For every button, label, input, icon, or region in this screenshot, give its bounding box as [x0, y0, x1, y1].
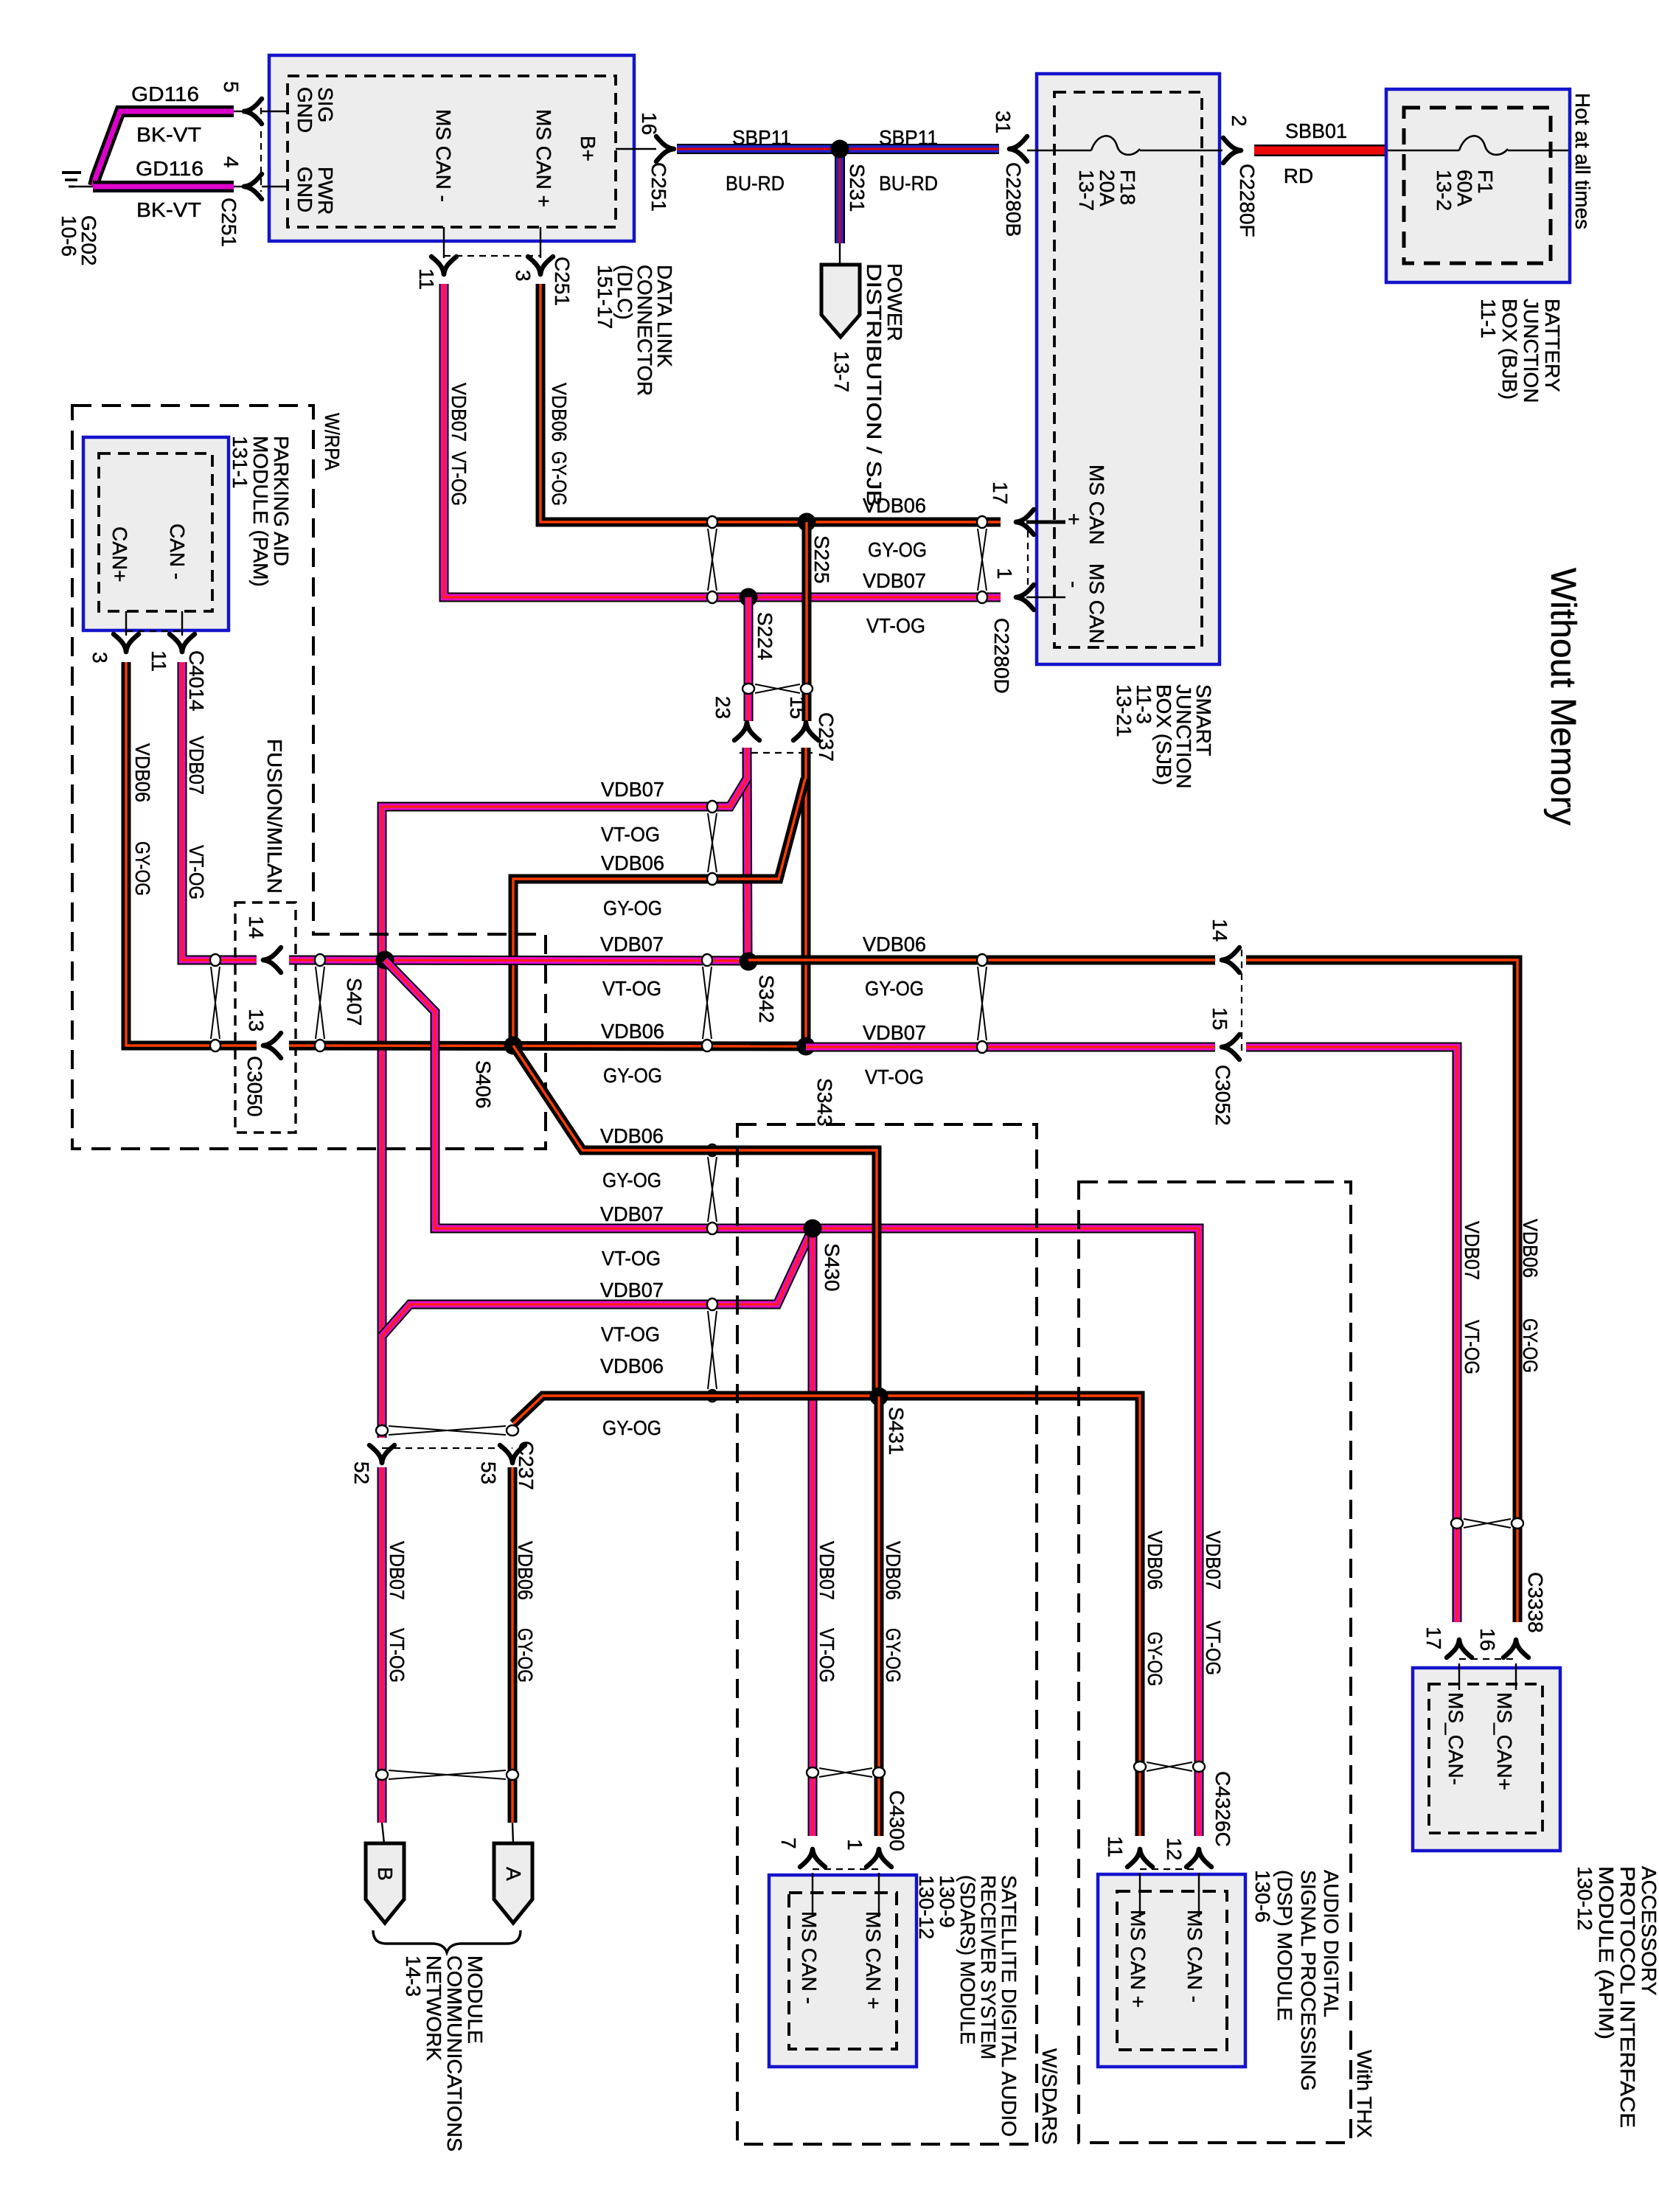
svg-text:31: 31: [992, 111, 1015, 133]
svg-text:PWR: PWR: [314, 167, 337, 215]
svg-text:W/RPA: W/RPA: [321, 413, 344, 470]
power distribution symbol: [821, 243, 906, 507]
svg-text:(SDARS) MODULE: (SDARS) MODULE: [956, 1875, 979, 2045]
connector A: [494, 1823, 532, 1923]
svg-text:11: 11: [415, 268, 438, 290]
wire VDB06 pin53 to connector A: [508, 1467, 518, 1823]
svg-text:MS CAN: MS CAN: [1085, 563, 1108, 644]
splice S430: [804, 1220, 844, 1292]
twisted pair symbol (y1769/y1893): [708, 1311, 717, 1389]
DLC label block: [594, 265, 676, 396]
svg-text:CAN+: CAN+: [108, 526, 131, 582]
svg-text:BU-RD: BU-RD: [726, 172, 785, 195]
svg-text:5: 5: [220, 81, 243, 93]
twisted pair symbol (above C237): [755, 684, 800, 693]
svg-text:BK-VT: BK-VT: [136, 123, 201, 146]
labels VDB06 GY-OG (S342 right): [863, 933, 926, 1000]
svg-text:BU-RD: BU-RD: [879, 172, 938, 195]
svg-text:GND: GND: [293, 87, 316, 133]
labels VDB06 GY-OG (S406-S343 run): [601, 1020, 664, 1087]
svg-text:GY-OG: GY-OG: [865, 977, 924, 1000]
APIM pin 16: [1476, 1628, 1528, 1658]
svg-text:VDB07: VDB07: [600, 933, 664, 956]
svg-text:VDB07: VDB07: [386, 1541, 408, 1600]
wire VDB06 S431 right to DSP pin11: [877, 1396, 1140, 1836]
svg-text:AUDIO DIGITAL: AUDIO DIGITAL: [1320, 1870, 1343, 2017]
svg-text:14: 14: [245, 916, 268, 939]
svg-text:W/SDARS: W/SDARS: [1038, 2048, 1061, 2145]
svg-text:GND: GND: [293, 167, 316, 212]
svg-text:GY-OG: GY-OG: [603, 1064, 662, 1087]
wire VDB07 VT-OG PAM pin11 to C3050 pin14: [182, 662, 257, 960]
svg-text:CAN -: CAN -: [166, 524, 189, 580]
svg-text:S231: S231: [846, 164, 869, 212]
svg-text:S343: S343: [813, 1078, 836, 1126]
DSP pin 11: [1104, 1836, 1152, 1867]
DLC pin 5 SIG GND: [220, 81, 337, 133]
svg-text:VDB07: VDB07: [863, 1021, 926, 1044]
SDARS label block: [915, 1875, 1020, 2137]
svg-text:VDB06: VDB06: [600, 1354, 664, 1377]
svg-text:MS CAN -: MS CAN -: [432, 109, 455, 202]
twisted pair symbol (above DSP): [1147, 1762, 1192, 1771]
twisted pair symbol (y1560/y1666): [708, 1157, 717, 1222]
svg-text:C237: C237: [515, 1441, 538, 1490]
twisted pair symbol (SJB pair): [978, 529, 987, 591]
wire VDB07 S343 to C3052 pin15: [806, 1043, 1215, 1052]
svg-text:23: 23: [712, 696, 734, 719]
svg-text:VDB07: VDB07: [600, 1203, 664, 1225]
svg-text:SBP11: SBP11: [732, 126, 791, 149]
svg-text:RECEIVER SYSTEM: RECEIVER SYSTEM: [977, 1875, 1000, 2059]
twisted pair symbol (y1094/y1192): [708, 813, 717, 872]
svg-text:12: 12: [1163, 1837, 1186, 1860]
svg-text:VT-OG: VT-OG: [602, 977, 661, 1000]
svg-text:VDB07: VDB07: [600, 1279, 664, 1301]
svg-text:C2280D: C2280D: [990, 618, 1013, 694]
C237 pin 52: [350, 1445, 394, 1484]
svg-text:MS_CAN+: MS_CAN+: [1493, 1692, 1516, 1790]
C237 pin 15: [786, 696, 818, 740]
svg-text:1: 1: [993, 568, 1016, 580]
svg-text:BK-VT: BK-VT: [136, 198, 201, 221]
svg-text:2: 2: [1228, 115, 1251, 127]
svg-text:SATELLITE DIGITAL AUDIO: SATELLITE DIGITAL AUDIO: [998, 1875, 1020, 2137]
svg-text:13-21: 13-21: [1113, 684, 1135, 737]
svg-text:VDB07: VDB07: [1461, 1221, 1484, 1280]
svg-text:14-3: 14-3: [402, 1955, 425, 1997]
wire VDB07 S224 to C237 pin23: [744, 597, 754, 721]
svg-text:VDB06: VDB06: [600, 1124, 664, 1147]
labels VDB07 VT-OG (y1094 run): [601, 778, 664, 846]
labels VDB06 GY-OG (right vertical): [1519, 1219, 1542, 1373]
DLC module box: [269, 55, 634, 241]
twisted pair symbol (above C237 52/53): [389, 1426, 506, 1435]
W/SDARS dashed region: [737, 1124, 1037, 2144]
ground G202: [58, 173, 100, 266]
svg-text:GY-OG: GY-OG: [1144, 1632, 1166, 1686]
connector C4300 dashed: [813, 1868, 879, 1870]
splice S407: [343, 951, 394, 1026]
C237 pin 23: [712, 696, 759, 740]
svg-text:MODULE: MODULE: [464, 1955, 487, 2044]
connector C237 dashed (top): [740, 752, 813, 754]
SDARS pin 1: [844, 1839, 891, 1867]
labels VDB06 GY-OG (DSP pin11): [1144, 1531, 1166, 1686]
svg-text:1: 1: [844, 1839, 866, 1851]
SJB pin 2: [1223, 115, 1259, 237]
svg-text:VT-OG: VT-OG: [601, 823, 660, 846]
connector C251 dashed (bottom): [444, 255, 540, 257]
svg-text:VT-OG: VT-OG: [815, 1628, 838, 1683]
svg-text:S406: S406: [472, 1060, 495, 1108]
svg-text:130-12: 130-12: [1573, 1866, 1596, 1930]
labels VDB07 VT-OG (y1666 run): [600, 1203, 664, 1270]
svg-text:SIG: SIG: [314, 87, 337, 122]
svg-text:14: 14: [1208, 919, 1231, 942]
svg-text:FUSION/MILAN: FUSION/MILAN: [263, 739, 286, 894]
BJB label block: [1477, 299, 1564, 403]
SJB pin 17 MS CAN +: [989, 481, 1065, 535]
BJB module box: [1386, 89, 1570, 282]
svg-text:MODULE (PAM): MODULE (PAM): [249, 436, 272, 587]
svg-text:131-1: 131-1: [229, 436, 251, 489]
svg-text:11: 11: [147, 650, 170, 672]
svg-text:+: +: [1062, 513, 1085, 525]
twisted pair symbol (DLC pair): [708, 529, 717, 591]
label MODULE COMMUNICATIONS NETWORK: [402, 1955, 487, 2152]
twisted pair symbol (before C3052): [978, 967, 987, 1040]
splice S431: [870, 1388, 908, 1455]
labels VDB06 GY-OG (SDARS pin1): [882, 1541, 905, 1683]
svg-text:MS CAN -: MS CAN -: [798, 1911, 821, 2004]
SJB label MS CAN +: [1062, 465, 1108, 545]
svg-text:130-9: 130-9: [936, 1875, 959, 1928]
svg-text:C3050: C3050: [243, 1056, 266, 1117]
labels VDB07 VT-OG (DSP pin12): [1202, 1531, 1225, 1675]
labels VDB06 GY-OG (y1893 run): [600, 1354, 664, 1439]
svg-text:VDB06: VDB06: [514, 1541, 537, 1600]
svg-text:S225: S225: [810, 535, 833, 583]
wire VDB07 pin52 to connector B: [378, 1467, 387, 1823]
labels VDB07 VT-OG (S407-S342 run): [600, 933, 664, 1000]
svg-text:3: 3: [512, 270, 535, 282]
connector C4326C dashed: [1140, 1868, 1199, 1870]
svg-text:60A: 60A: [1453, 170, 1476, 206]
C3050 pin 14: [245, 916, 281, 973]
C237 pin 53: [477, 1445, 525, 1484]
svg-text:F1: F1: [1474, 170, 1497, 194]
wire VDB07 S430 to SDARS pin7: [808, 1228, 818, 1836]
svg-text:MS CAN +: MS CAN +: [862, 1911, 885, 2009]
PAM label block: [229, 436, 293, 587]
svg-text:GY-OG: GY-OG: [1519, 1318, 1542, 1373]
wire VDB06 S342 to C3052 pin14: [748, 956, 1215, 965]
svg-text:C4326C: C4326C: [1211, 1771, 1234, 1847]
connector B: [366, 1823, 404, 1923]
svg-text:7: 7: [777, 1837, 800, 1849]
BJB internal circuit with fuse F1: [1388, 136, 1568, 155]
svg-text:17: 17: [989, 481, 1012, 504]
SJB internal circuit with fuse F18: [1027, 136, 1222, 155]
svg-text:16: 16: [638, 112, 661, 135]
svg-text:10-6: 10-6: [58, 215, 80, 257]
svg-text:GD116: GD116: [136, 157, 204, 180]
SJB module box: [1037, 74, 1220, 664]
svg-text:16: 16: [1476, 1628, 1499, 1651]
svg-text:13-7: 13-7: [1075, 170, 1098, 211]
svg-text:C237: C237: [815, 712, 838, 762]
svg-text:DISTRIBUTION / SJB: DISTRIBUTION / SJB: [863, 263, 886, 507]
svg-text:VDB07: VDB07: [448, 383, 470, 442]
svg-text:C2280B: C2280B: [1002, 162, 1025, 237]
svg-text:GY-OG: GY-OG: [603, 897, 662, 919]
brace module communications network: [373, 1930, 521, 1952]
svg-text:MS CAN +: MS CAN +: [532, 109, 555, 207]
svg-text:C251: C251: [551, 257, 574, 306]
svg-text:F18: F18: [1116, 170, 1139, 205]
labels VDB06 GY-OG (pin53): [514, 1541, 537, 1683]
svg-text:POWER: POWER: [883, 263, 906, 341]
svg-text:15: 15: [1208, 1007, 1231, 1030]
svg-text:-: -: [1062, 581, 1085, 588]
wire GD116 BK-VT to DLC pin 4: [93, 181, 244, 192]
svg-text:VT-OG: VT-OG: [386, 1628, 408, 1683]
svg-text:VDB07: VDB07: [601, 778, 664, 801]
APIM label block: [1573, 1866, 1659, 2128]
wire VDB07 C3050 pin14 to S342: [289, 960, 748, 961]
labels VDB07 VT-OG (S343 right): [863, 1021, 926, 1088]
DLC pin 16 B+: [616, 112, 674, 212]
twisted pair symbol (above B/A): [389, 1770, 506, 1779]
DSP pin 12: [1163, 1837, 1211, 1867]
labels VDB06 GY-OG (y1192 run): [601, 852, 664, 919]
splice S225: [798, 513, 834, 584]
APIM module box: [1413, 1663, 1560, 1851]
svg-text:VDB06: VDB06: [863, 933, 926, 956]
svg-text:PARKING AID: PARKING AID: [270, 436, 293, 566]
svg-text:C251: C251: [647, 162, 670, 212]
C3052 pin 15: [1208, 1007, 1239, 1060]
svg-text:MS CAN +: MS CAN +: [1127, 1910, 1150, 2008]
twisted pair symbol (above SDARS): [819, 1768, 872, 1777]
svg-text:C3052: C3052: [1211, 1065, 1234, 1126]
svg-text:3: 3: [88, 652, 111, 664]
svg-text:130-6: 130-6: [1251, 1870, 1274, 1923]
labels VDB06 GY-OG (PAM): [131, 743, 154, 896]
wire VDB07 C3052 to APIM pin17: [1246, 1047, 1457, 1622]
connector C3338 dashed: [1459, 1658, 1516, 1660]
svg-text:S407: S407: [343, 978, 366, 1026]
splice S342: [740, 953, 779, 1023]
With THX dashed region: [1079, 1182, 1351, 2143]
labels VDB07 VT-OG (right vertical): [1461, 1221, 1484, 1374]
svg-text:C251: C251: [218, 198, 240, 247]
svg-text:GY-OG: GY-OG: [882, 1628, 905, 1683]
svg-text:20A: 20A: [1096, 170, 1119, 206]
twisted pair symbol (PAM pair): [211, 967, 220, 1039]
splice S231: [831, 140, 869, 244]
labels VDB06 GY-OG (DLC vertical): [548, 383, 571, 506]
labels VDB07 VT-OG (DLC vertical): [448, 383, 470, 506]
svg-text:52: 52: [350, 1461, 373, 1484]
svg-text:BATTERY: BATTERY: [1541, 299, 1564, 392]
svg-text:151-17: 151-17: [594, 265, 616, 329]
svg-text:VT-OG: VT-OG: [601, 1323, 660, 1346]
svg-text:GY-OG: GY-OG: [514, 1628, 537, 1683]
svg-text:SBB01: SBB01: [1285, 119, 1347, 142]
wire VDB06 branch to S406 riser: [513, 779, 805, 1046]
svg-text:11: 11: [1104, 1836, 1127, 1857]
svg-text:130-12: 130-12: [915, 1875, 938, 1939]
svg-text:B: B: [374, 1867, 397, 1881]
svg-text:C2280F: C2280F: [1236, 164, 1259, 237]
svg-text:MODULE (APIM): MODULE (APIM): [1595, 1866, 1618, 2039]
svg-text:With THX: With THX: [1353, 2050, 1376, 2138]
DSP label block: [1251, 1870, 1343, 2091]
svg-text:A: A: [502, 1867, 525, 1881]
svg-text:53: 53: [477, 1461, 500, 1484]
svg-text:15: 15: [786, 696, 809, 719]
svg-text:VT-OG: VT-OG: [448, 451, 470, 506]
wire VDB07 S430 diagonal to pin52 wire: [382, 1228, 813, 1336]
wire VDB06 GY-OG PAM pin3 to C3050 pin13: [126, 662, 257, 1046]
svg-text:17: 17: [1422, 1627, 1445, 1649]
svg-text:GY-OG: GY-OG: [868, 538, 927, 561]
svg-text:C4014: C4014: [185, 650, 208, 712]
SJB pin 31: [992, 111, 1027, 237]
PAM pin 11 stub: [147, 611, 195, 672]
DSP module box: [1098, 1873, 1245, 2067]
svg-text:13-7: 13-7: [830, 351, 853, 392]
svg-text:VT-OG: VT-OG: [866, 614, 925, 637]
connector C237 dashed (bottom): [382, 1447, 512, 1449]
svg-text:NETWORK: NETWORK: [422, 1955, 445, 2061]
DLC pin 11 stub: [415, 227, 456, 290]
svg-text:VDB07: VDB07: [1202, 1531, 1225, 1590]
svg-text:C4300: C4300: [886, 1790, 908, 1851]
svg-text:S431: S431: [885, 1407, 908, 1455]
DLC pin 4 PWR GND: [220, 156, 337, 215]
labels VDB07 VT-OG (SDARS pin7): [815, 1541, 838, 1683]
svg-text:ACCESSORY: ACCESSORY: [1638, 1866, 1659, 1996]
wire VDB06 C237 pin15 to S343: [801, 748, 811, 1046]
svg-text:JUNCTION: JUNCTION: [1520, 299, 1543, 403]
SJB label block: [1113, 684, 1215, 789]
svg-text:13-2: 13-2: [1433, 170, 1455, 211]
wire VDB07 branch to pin 52 wire: [382, 779, 747, 1438]
svg-text:VDB06: VDB06: [548, 383, 571, 442]
svg-text:BOX (BJB): BOX (BJB): [1498, 299, 1521, 400]
svg-text:VDB06: VDB06: [601, 1020, 664, 1043]
svg-text:VT-OG: VT-OG: [602, 1247, 661, 1270]
svg-text:13: 13: [245, 1009, 268, 1032]
fuse F1 labels: [1433, 170, 1497, 211]
splice S406: [472, 1037, 523, 1109]
svg-text:VT-OG: VT-OG: [1461, 1320, 1484, 1374]
svg-text:(DSP) MODULE: (DSP) MODULE: [1273, 1870, 1296, 2021]
wire VDB07 S407 to S430 to DSP pin12: [385, 960, 1199, 1836]
svg-text:B+: B+: [577, 136, 599, 161]
svg-text:VDB06: VDB06: [601, 852, 664, 874]
svg-text:S430: S430: [821, 1243, 844, 1291]
svg-text:SBP11: SBP11: [879, 126, 938, 149]
wire VDB07 VT-OG DLC pin11 to SJB pin1 via S224: [444, 284, 1001, 597]
wire SBB01 RD: [1254, 145, 1388, 156]
svg-text:GY-OG: GY-OG: [602, 1416, 661, 1439]
wire VDB06 S431 to SDARS pin1: [874, 1397, 884, 1836]
svg-text:4: 4: [220, 156, 243, 168]
PAM module box: [83, 437, 229, 630]
svg-text:PROTOCOL INTERFACE: PROTOCOL INTERFACE: [1616, 1866, 1639, 2128]
svg-text:S224: S224: [754, 612, 776, 660]
svg-text:VDB06: VDB06: [131, 743, 154, 802]
wire VDB06 S225 to C237 pin15: [802, 522, 812, 721]
wire VDB06 S406 to S431 riser: [513, 1046, 877, 1397]
APIM pin 17: [1422, 1627, 1472, 1658]
svg-text:VT-OG: VT-OG: [185, 845, 208, 900]
labels VDB06 GY-OG (to SJB pin17): [863, 494, 927, 561]
W/RPA dashed region: [72, 406, 546, 1149]
fuse F18 labels: [1075, 170, 1139, 211]
svg-text:VDB07: VDB07: [185, 736, 208, 795]
DLC pin 3 stub: [512, 227, 574, 306]
twisted pair symbol (above APIM): [1464, 1519, 1511, 1528]
wire VDB06 C3052 to APIM pin16: [1246, 960, 1517, 1622]
wire GD116 BK-VT to DLC pin 5: [94, 111, 244, 186]
svg-text:VDB06: VDB06: [882, 1541, 905, 1600]
svg-text:VT-OG: VT-OG: [1202, 1621, 1225, 1675]
svg-text:MS CAN: MS CAN: [1085, 465, 1108, 545]
labels VDB07 VT-OG (PAM): [185, 736, 208, 900]
labels VDB07 VT-OG (to SJB pin1): [863, 569, 926, 637]
svg-text:VDB06: VDB06: [1519, 1219, 1542, 1278]
svg-text:11-1: 11-1: [1477, 299, 1500, 338]
C3050 pin 13: [245, 1009, 281, 1058]
wire SBP11 BU-RD: [677, 144, 999, 154]
PAM pin 3 stub: [88, 611, 139, 664]
wire VDB07 C237 pin23 to S342: [747, 748, 748, 961]
splice S343: [797, 1037, 837, 1127]
SDARS pin 7: [777, 1837, 825, 1867]
svg-text:GY-OG: GY-OG: [131, 841, 154, 896]
svg-text:C3338: C3338: [1524, 1572, 1547, 1633]
svg-text:Hot at all times: Hot at all times: [1571, 93, 1594, 229]
twisted pair symbol (after C3050): [316, 967, 324, 1039]
twisted pair symbol (before S342/S343): [703, 967, 712, 1039]
svg-text:SIGNAL PROCESSING: SIGNAL PROCESSING: [1297, 1870, 1320, 2091]
connector C3050 dashed box: [235, 902, 296, 1133]
svg-text:MS CAN -: MS CAN -: [1183, 1910, 1206, 2003]
svg-text:MS_CAN-: MS_CAN-: [1444, 1692, 1467, 1785]
splice S224: [740, 588, 777, 661]
svg-text:VDB06: VDB06: [863, 494, 926, 517]
connector C4014 dashed: [126, 630, 182, 632]
svg-text:RD: RD: [1284, 164, 1313, 187]
SDARS module box: [769, 1873, 917, 2067]
svg-text:VDB06: VDB06: [1144, 1531, 1166, 1590]
svg-text:COMMUNICATIONS: COMMUNICATIONS: [443, 1955, 466, 2152]
svg-text:S342: S342: [755, 975, 778, 1023]
SJB label MS CAN -: [1062, 563, 1108, 644]
svg-text:VDB07: VDB07: [815, 1541, 838, 1600]
labels VDB07 VT-OG (y1769 run): [600, 1279, 664, 1346]
svg-text:Without Memory: Without Memory: [1543, 568, 1582, 825]
labels VDB06 GY-OG (y1560 run): [600, 1124, 664, 1192]
labels VDB07 VT-OG (pin52): [386, 1541, 408, 1683]
wire VDB06 S431 left to pin53 riser: [513, 1396, 877, 1424]
connector C251 dashed (left): [260, 108, 262, 192]
